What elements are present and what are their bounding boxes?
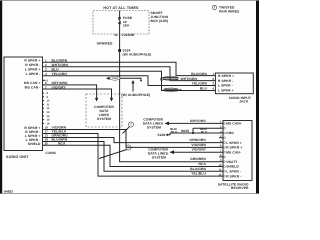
svg-text:GND: GND (226, 131, 234, 135)
svg-text:BLU: BLU (171, 130, 177, 134)
svg-text:(W/ AUDIOPHILE): (W/ AUDIOPHILE) (123, 53, 152, 57)
svg-text:AUDIO UNIT: AUDIO UNIT (6, 155, 29, 159)
svg-text:VIO/GRY: VIO/GRY (192, 148, 207, 152)
page bottom edge line (0, 192, 259, 195)
junction dot on wire 2 (140, 80, 142, 82)
svg-text:S248: S248 (157, 133, 165, 137)
svg-text:SHIELD: SHIELD (28, 142, 41, 146)
satellite radio receiver box (223, 121, 252, 181)
wire 13 GRN/ORG to satellite pin 5 (43, 138, 224, 143)
svg-text:R SPKR +: R SPKR + (218, 74, 234, 78)
svg-text:(W/ AUDIOPHILE): (W/ AUDIOPHILE) (122, 93, 151, 97)
splice S324 (118, 49, 121, 52)
svg-text:HOT AT ALL TIMES: HOT AT ALL TIMES (103, 6, 139, 10)
svg-text:L SPKR -: L SPKR - (226, 170, 241, 174)
twisted pair legend (212, 5, 216, 9)
wire 19 VIO/GRN to satellite pin 6 (43, 130, 224, 148)
svg-text:C240: C240 (112, 77, 118, 80)
svg-text:NCA: NCA (199, 162, 207, 166)
svg-text:9H823: 9H823 (4, 190, 13, 194)
svg-text:NCA: NCA (58, 141, 66, 145)
svg-text:YEL/GRN: YEL/GRN (192, 82, 208, 86)
svg-text:BLU: BLU (200, 87, 208, 91)
svg-text:WHT/GRN: WHT/GRN (52, 63, 69, 67)
arrow into computer data lines box (110, 98, 113, 102)
audio unit box (4, 57, 43, 151)
wire 2 WHT/GRN audio unit to jack pin 2 (43, 67, 216, 81)
svg-text:R SPKR +: R SPKR + (24, 59, 40, 63)
wire GRY/ORG to satellite pin 1 MS CAN+ (169, 122, 223, 124)
svg-text:L SPKR +: L SPKR + (25, 68, 41, 72)
arrow into computer data lines box (95, 98, 98, 102)
svg-text:S645: S645 (181, 129, 189, 133)
wire label BLK/BLU left (170, 127, 177, 134)
svg-text:R SPKR -: R SPKR - (226, 174, 241, 178)
svg-text:BLU/GRN: BLU/GRN (191, 72, 207, 76)
svg-text:BLU/GRN: BLU/GRN (52, 58, 68, 62)
svg-text:L SPKR +: L SPKR + (218, 89, 234, 93)
twisted pair marker lower (126, 145, 131, 150)
page top edge line (0, 0, 259, 2)
svg-text:MS CAN -: MS CAN - (25, 85, 41, 89)
svg-text:36: 36 (114, 33, 118, 37)
inline connector on audiophile branch (106, 77, 110, 80)
svg-text:SYSTEM: SYSTEM (147, 126, 161, 130)
svg-text:BLU/GRN: BLU/GRN (190, 167, 206, 171)
svg-text:JACK: JACK (239, 100, 249, 104)
wire VIO/GRY to satellite pin 7 MS CAN- (174, 151, 223, 153)
svg-text:SHIELD: SHIELD (226, 165, 239, 169)
wire label BLK/BLU right (200, 127, 207, 134)
svg-text:GRN/ORG: GRN/ORG (190, 138, 207, 142)
svg-text:C2280B: C2280B (122, 33, 135, 37)
svg-text:MS CAN-: MS CAN- (226, 150, 241, 154)
fuse F12 15A (118, 17, 120, 24)
page left black border (0, 0, 2, 194)
wire BLK/BLU ground pin 3 with splices (170, 132, 223, 134)
arrow from audiophile audio unit (132, 83, 134, 92)
wire BLK/BLU ground pin 2 (193, 127, 223, 129)
splice S645 (192, 132, 194, 134)
wire fuse feed inside SJB (119, 11, 121, 17)
svg-text:WHT/GRN: WHT/GRN (181, 77, 198, 81)
svg-text:L SPKR +: L SPKR + (226, 141, 242, 145)
svg-text:VIO/GRN: VIO/GRN (191, 143, 206, 147)
wire 5 GRY/ORG MS CAN + (43, 85, 97, 99)
svg-text:R SPKR -: R SPKR - (25, 63, 40, 67)
wire 17 YEL/BLU to satellite pin 12 (43, 134, 224, 177)
svg-text:GRN/RED: GRN/RED (97, 42, 113, 46)
wire GRN/RED splice down to satellite receiver VBATT (120, 51, 223, 162)
unused pin stub 5 (43, 79, 46, 81)
svg-text:R SPKR +: R SPKR + (226, 146, 242, 150)
svg-text:BLU: BLU (52, 68, 60, 72)
svg-text:VBATT: VBATT (226, 160, 237, 164)
wire fuse to connector C2280B (119, 24, 121, 34)
svg-text:L SPKR -: L SPKR - (26, 72, 41, 76)
svg-text:VIO/GRY: VIO/GRY (52, 85, 67, 89)
svg-text:GRN/RED: GRN/RED (190, 157, 206, 161)
svg-text:YEL/GRN: YEL/GRN (52, 72, 68, 76)
svg-text:15A: 15A (123, 24, 130, 28)
unused pin stubs 8-16 (43, 93, 45, 123)
wire 20 NCA shield to satellite pin 10 (43, 145, 224, 166)
satellite pin numbers (219, 121, 222, 177)
svg-text:MS CAN+: MS CAN+ (226, 122, 242, 126)
svg-text:T: T (128, 146, 130, 150)
wire GRN/RED from SJB to splice S324 (119, 34, 121, 51)
satellite connector pin circles (224, 123, 226, 178)
computer data lines system dashed box (86, 94, 122, 127)
svg-text:20: 20 (45, 141, 49, 145)
twisted pair oval left pair (164, 88, 179, 92)
svg-text:R SPKR -: R SPKR - (218, 79, 233, 83)
wire 1 BLU/GRN audio unit to jack pin 1 (43, 62, 216, 75)
svg-text:SYSTEM: SYSTEM (97, 117, 111, 121)
svg-text:YEL/BLU: YEL/BLU (191, 172, 206, 176)
wire 18 BLU/GRN to satellite pin 11 (43, 142, 224, 172)
svg-text:GRY/ORG: GRY/ORG (190, 119, 206, 123)
svg-text:C290C: C290C (46, 151, 57, 155)
svg-text:RECEIVER: RECEIVER (231, 186, 249, 190)
twisted pair oval right pair (163, 76, 179, 80)
svg-text:T: T (130, 123, 132, 127)
twisted pair circled marker at oval1 (160, 78, 163, 81)
svg-text:BOX (SJB): BOX (SJB) (151, 19, 169, 23)
svg-text:PAIR WIRES: PAIR WIRES (219, 10, 240, 14)
twisted pair marker upper (128, 122, 133, 127)
wire audiophile branch to jack pin 2 (120, 78, 141, 80)
splice S248 (168, 133, 170, 135)
wire 3 BLU audio unit to jack pin 4 (43, 71, 216, 90)
svg-text:T: T (214, 6, 216, 10)
satellite pin stubs 4 and 8 (219, 138, 223, 157)
svg-text:L SPKR -: L SPKR - (218, 84, 233, 88)
wire 4 YEL/GRN audio unit to jack pin 3 (43, 76, 216, 86)
smart junction box dashed outline (93, 11, 149, 35)
page right black border (256, 0, 259, 194)
audio input jack box (215, 73, 253, 94)
svg-text:SYSTEM: SYSTEM (152, 156, 166, 160)
svg-text:BLU: BLU (201, 130, 207, 134)
wire 6 VIO/GRY MS CAN - (43, 89, 112, 99)
